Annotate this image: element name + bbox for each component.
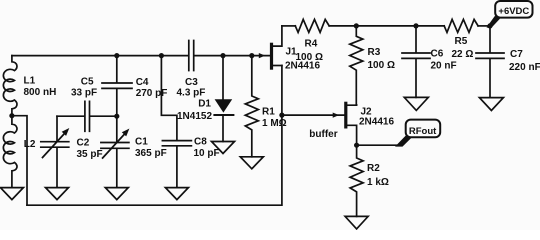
wire R5 to +6VDC node xyxy=(478,25,490,27)
svg-text:L1: L1 xyxy=(24,76,36,87)
wire C8 branch with jog xyxy=(161,56,177,141)
wire top-left rail from L1 to C3 xyxy=(12,55,188,57)
capacitor C2 (variable) xyxy=(41,116,69,187)
output tag RFout xyxy=(406,120,441,138)
node L1-L2 junction xyxy=(9,113,14,118)
svg-text:100 Ω: 100 Ω xyxy=(296,52,323,63)
capacitor C6 xyxy=(402,26,430,98)
wire C6 node to R5 xyxy=(416,25,444,27)
transistor J1 (2N4416) xyxy=(259,53,265,58)
node top wire / D1 xyxy=(220,53,225,58)
svg-text:20 nF: 20 nF xyxy=(431,60,457,71)
svg-text:10 pF: 10 pF xyxy=(194,148,220,159)
inductor L2 xyxy=(3,116,17,188)
inductor L1 xyxy=(3,56,17,116)
ground (C8) xyxy=(165,188,188,200)
svg-text:R5: R5 xyxy=(455,36,468,47)
ground (R1) xyxy=(240,157,263,169)
capacitor C3 xyxy=(189,41,194,71)
svg-text:C2: C2 xyxy=(77,138,90,149)
ground (C6) xyxy=(404,97,428,110)
capacitor C5 xyxy=(85,101,90,131)
wire bottom feedback rail xyxy=(27,66,282,206)
ground (C1) xyxy=(105,188,128,200)
wire R3 node to C6 node xyxy=(356,25,416,27)
svg-text:800 nH: 800 nH xyxy=(24,87,57,98)
svg-text:C3: C3 xyxy=(185,77,198,88)
svg-text:220 nF: 220 nF xyxy=(509,62,540,73)
svg-text:buffer: buffer xyxy=(309,129,337,140)
wire J2 gate xyxy=(282,114,345,116)
node J2 gate tap xyxy=(279,113,284,118)
svg-text:L2: L2 xyxy=(24,139,36,150)
ground (R2) xyxy=(345,216,368,229)
wire C3 to J1 gate xyxy=(194,55,270,57)
node C6 top xyxy=(413,23,418,28)
wire R4 to R3 node xyxy=(329,25,356,27)
svg-text:33 pF: 33 pF xyxy=(71,87,97,98)
svg-text:D1: D1 xyxy=(198,98,211,109)
diode D1 xyxy=(222,56,224,100)
resistor R4 xyxy=(295,19,329,32)
wire top supply rail xyxy=(282,25,295,27)
svg-text:22 Ω: 22 Ω xyxy=(452,49,474,60)
svg-text:1 kΩ: 1 kΩ xyxy=(367,177,389,188)
node R3 top xyxy=(354,23,359,28)
node C4/C5/C1 xyxy=(114,114,119,119)
svg-text:C4: C4 xyxy=(136,77,149,88)
svg-text:2N4416: 2N4416 xyxy=(359,117,394,128)
ground (C2) xyxy=(46,188,69,200)
svg-text:R1: R1 xyxy=(262,107,275,118)
svg-text:R4: R4 xyxy=(305,39,318,50)
svg-text:RFout: RFout xyxy=(409,126,437,137)
node +6VDC / C7 xyxy=(487,23,492,28)
resistor R3 xyxy=(350,26,363,105)
transistor J2 (2N4416) xyxy=(333,113,339,118)
node J2 source / R2 / RFout xyxy=(354,143,359,148)
svg-text:C7: C7 xyxy=(510,49,523,60)
wire wedge to RFout tag xyxy=(395,134,413,147)
svg-text:C6: C6 xyxy=(431,48,444,59)
wire RFout xyxy=(357,144,400,146)
node top wire / C8 branch xyxy=(159,53,164,58)
svg-text:270 pF: 270 pF xyxy=(136,88,168,99)
supply tag +6VDC xyxy=(495,1,532,18)
svg-text:1N4152: 1N4152 xyxy=(177,111,212,122)
resistor R1 xyxy=(245,56,258,157)
capacitor C7 xyxy=(476,26,504,98)
svg-text:R2: R2 xyxy=(367,163,380,174)
svg-text:35 pF: 35 pF xyxy=(77,149,103,160)
ground (L2) xyxy=(0,188,23,200)
capacitor C8 xyxy=(162,141,191,188)
node top wire / R1 xyxy=(249,53,254,58)
resistor R5 xyxy=(444,19,478,32)
ground (D1) xyxy=(212,142,235,154)
svg-text:+6VDC: +6VDC xyxy=(498,6,529,17)
svg-text:R3: R3 xyxy=(368,47,381,58)
wire tap from L1/L2 junction xyxy=(12,116,27,206)
svg-text:100 Ω: 100 Ω xyxy=(368,60,395,71)
wire wedge to +6VDC tag xyxy=(487,16,501,28)
capacitor C4 xyxy=(102,56,132,117)
svg-text:C5: C5 xyxy=(81,77,94,88)
svg-text:1 MΩ: 1 MΩ xyxy=(262,118,287,129)
node top wire / C4 xyxy=(114,53,119,58)
svg-text:4.3 pF: 4.3 pF xyxy=(177,88,206,99)
svg-text:C8: C8 xyxy=(194,136,207,147)
svg-text:365 pF: 365 pF xyxy=(135,148,167,159)
wire C5 net xyxy=(57,115,117,117)
resistor R2 xyxy=(350,145,363,216)
svg-text:C1: C1 xyxy=(135,136,148,147)
capacitor C1 (variable) xyxy=(101,116,129,187)
ground (C7) xyxy=(479,98,503,111)
